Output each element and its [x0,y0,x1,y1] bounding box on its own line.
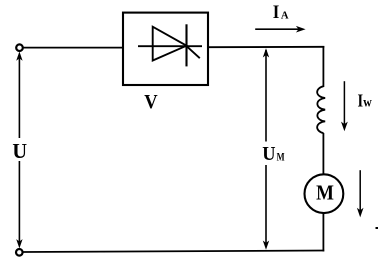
thyristor gate line [186,45,200,58]
svg-text:U: U [262,143,275,165]
rectifier box V [123,13,208,85]
thyristor anode lead [138,45,202,47]
svg-text:M: M [316,180,334,204]
voltage arrow UM (down head) [263,165,269,250]
voltage arrow U (up head) [16,52,22,139]
voltage arrow U (down head) [16,161,22,248]
current arrow IA [255,26,305,33]
current arrow IW [341,81,348,131]
svg-text:U: U [12,139,27,163]
speck [376,227,379,229]
bottom wire [23,251,325,253]
wire coil to motor [322,133,324,175]
terminal bottom-left [16,249,23,256]
voltage arrow UM (up head) [263,48,269,141]
svg-text:A: A [281,9,289,21]
arrow beside motor [357,170,364,217]
motor M circle [305,174,344,213]
svg-text:M: M [277,149,285,163]
svg-text:w: w [363,96,372,111]
wire motor to bottom [322,213,324,251]
inductor coil [317,86,325,133]
svg-text:I: I [273,2,280,23]
wire right branch upper [322,46,324,87]
thyristor triangle [153,27,187,61]
wire top-left [23,47,123,49]
svg-text:V: V [144,91,157,113]
wire top-right [208,46,324,48]
thyristor cathode bar [185,24,187,66]
terminal top-left [16,44,23,51]
